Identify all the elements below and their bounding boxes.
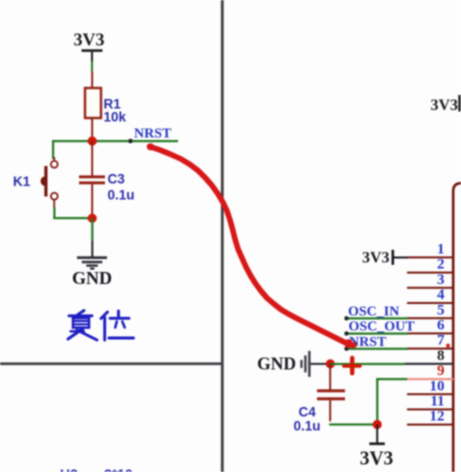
switch K1 pin top [53, 157, 55, 161]
capacitor C3 pin bottom [91, 184, 93, 218]
pin 10 [407, 378, 454, 395]
switch K1 pin bottom [53, 200, 55, 208]
svg-text:4: 4 [437, 287, 445, 303]
svg-text:1: 1 [437, 242, 445, 258]
svg-text:OSC_IN: OSC_IN [348, 305, 399, 320]
wire NRST horizontal [52, 140, 178, 142]
svg-text:7: 7 [437, 333, 445, 349]
resistor R1 pin top [91, 71, 93, 88]
power port 3V3 (bottom) [360, 425, 394, 470]
pin 3 [407, 272, 454, 289]
svg-text:GND: GND [72, 268, 112, 288]
pin 11 [407, 394, 454, 411]
capacitor C4 pin top [329, 364, 331, 390]
wire OSC_IN [345, 317, 408, 319]
svg-text:NRST: NRST [134, 127, 172, 142]
svg-text:GND: GND [257, 354, 296, 374]
junction node D [373, 420, 382, 429]
power port GND (right) [257, 351, 330, 377]
wire OSC_OUT [345, 333, 408, 335]
svg-text:5: 5 [437, 302, 445, 318]
node NRST dot [128, 139, 133, 144]
svg-text:10: 10 [430, 378, 445, 394]
svg-text:OSC_OUT: OSC_OUT [349, 320, 416, 335]
pin 2 [407, 257, 454, 274]
junction node B [88, 214, 97, 223]
resistor R1 [85, 88, 101, 118]
svg-text:2*10: 2*10 [104, 466, 133, 472]
svg-text:3: 3 [437, 272, 445, 288]
pin 12 [407, 409, 454, 426]
svg-text:3V3: 3V3 [74, 30, 105, 50]
switch K1 contact top [51, 161, 58, 168]
pin 6 [407, 318, 454, 335]
wire node B to ground [91, 218, 93, 257]
pin 7 [407, 333, 454, 350]
svg-text:6: 6 [437, 318, 445, 334]
wire node C to pin 8 [330, 363, 405, 365]
text 复位 (reset) [68, 311, 134, 341]
red annotation freehand curve [147, 143, 357, 348]
junction node C [326, 359, 335, 368]
wire pin 9 [376, 378, 407, 380]
wire from K1 to node B [53, 207, 92, 219]
svg-text:10k: 10k [104, 110, 127, 125]
connector U box [453, 183, 461, 472]
power port 3V3 (top right corner) [430, 95, 460, 114]
pin 5 [407, 302, 454, 319]
sheet border horizontal [0, 362, 222, 365]
svg-text:3V3: 3V3 [362, 250, 390, 267]
wire from 3V3 to R1 [91, 52, 93, 72]
svg-text:8: 8 [437, 348, 445, 364]
capacitor C3 [79, 175, 105, 184]
junction node A [88, 136, 97, 145]
node dot OSC_IN [344, 316, 348, 320]
capacitor C4 pin bottom [329, 400, 331, 421]
capacitor C4 [317, 389, 345, 400]
svg-text:12: 12 [430, 409, 445, 425]
svg-text:2: 2 [437, 257, 445, 273]
power port 3V3 (top left) [74, 30, 105, 52]
node dot OSC_OUT [344, 331, 348, 335]
svg-text:0.1u: 0.1u [108, 188, 135, 203]
svg-text:K1: K1 [13, 174, 31, 189]
svg-text:H2: H2 [60, 466, 78, 472]
pin 4 [407, 287, 454, 304]
switch K1 contact bottom [51, 193, 58, 200]
pin 1 [407, 242, 454, 259]
red annotation plus mark [344, 358, 360, 373]
svg-text:3V3: 3V3 [360, 449, 394, 470]
svg-text:0.1u: 0.1u [294, 419, 321, 434]
pin 9 (highlighted) [406, 363, 454, 380]
pin 8 (black) [405, 348, 454, 365]
sheet border vertical [221, 0, 224, 472]
switch K1 actuator [41, 166, 48, 197]
svg-text:3V3: 3V3 [430, 97, 458, 114]
wire vertical to bottom node [376, 378, 378, 426]
ground [77, 256, 107, 269]
svg-text:C3: C3 [108, 172, 126, 187]
svg-text:9: 9 [437, 363, 445, 379]
svg-text:11: 11 [430, 394, 444, 410]
svg-text:C4: C4 [299, 405, 317, 420]
power port 3V3 (pin1) [362, 250, 408, 267]
wire C4 to node D [329, 423, 377, 425]
node dot NRST right [344, 347, 348, 351]
capacitor C3 pin top [91, 141, 93, 176]
wire to switch K1 [52, 140, 54, 159]
resistor R1 pin bottom [91, 118, 93, 141]
wire NRST right [345, 348, 408, 350]
